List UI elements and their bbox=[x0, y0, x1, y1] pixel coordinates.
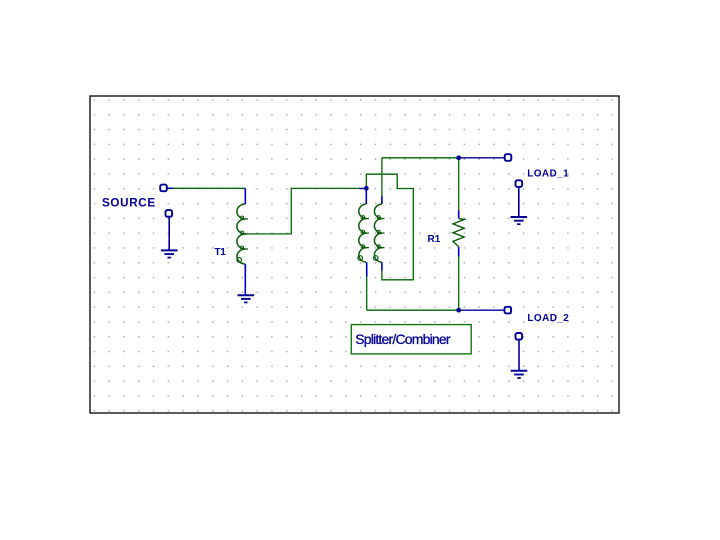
svg-text:T1: T1 bbox=[215, 247, 227, 258]
ground at SOURCE bbox=[161, 250, 178, 257]
wire R1 column upper bbox=[458, 158, 460, 210]
wire SOURCE pin2 to ground bbox=[168, 217, 170, 250]
text box Splitter/Combiner bbox=[351, 325, 471, 354]
svg-text:Splitter/Combiner: Splitter/Combiner bbox=[355, 331, 451, 347]
port SOURCE pin 2 bbox=[166, 210, 173, 217]
port SOURCE pin 1 bbox=[160, 185, 167, 192]
ground at T1 bbox=[238, 295, 255, 302]
wire LOAD_1 pin2 to ground bbox=[518, 187, 520, 217]
port LOAD_2 pin 2 bbox=[516, 333, 523, 340]
wire top rail green bbox=[382, 157, 459, 159]
svg-text:SOURCE: SOURCE bbox=[102, 196, 156, 209]
wire top rail navy to LOAD_1 port bbox=[459, 157, 505, 159]
junction dot T2 input bbox=[364, 186, 369, 191]
ground at LOAD_1 bbox=[511, 217, 528, 224]
wire T2 left winding bottom to bottom rail bbox=[366, 277, 368, 311]
transformer T2 right winding bbox=[374, 196, 385, 271]
wire T1 center tap to T2 junction bbox=[243, 188, 359, 234]
wire R1 column lower bbox=[458, 257, 460, 311]
ground at LOAD_2 bbox=[511, 371, 528, 378]
svg-text:R1: R1 bbox=[428, 234, 441, 245]
resistor R1 bbox=[453, 210, 464, 257]
wire SOURCE to T1 bbox=[167, 187, 245, 189]
port LOAD_1 pin 2 bbox=[516, 180, 523, 187]
port LOAD_2 pin 1 bbox=[505, 307, 512, 314]
wire LOAD_2 pin2 to ground bbox=[518, 340, 520, 371]
wire T2 right winding top to top rail bbox=[381, 158, 383, 196]
svg-text:LOAD_2: LOAD_2 bbox=[527, 313, 569, 324]
svg-text:LOAD_1: LOAD_1 bbox=[527, 168, 569, 179]
wire navy stub into T2 junction bbox=[359, 187, 367, 189]
junction dot top rail bbox=[456, 155, 461, 160]
junction dot bottom rail bbox=[456, 308, 461, 313]
wire bypass loop around T2 right winding bbox=[366, 174, 413, 280]
wire stub at SOURCE port bbox=[167, 187, 173, 189]
wire bottom rail navy to LOAD_2 port bbox=[459, 309, 505, 311]
wire bottom rail green bbox=[367, 309, 459, 311]
transformer T2 left winding bbox=[358, 188, 369, 276]
transformer T1 bbox=[237, 188, 248, 295]
port LOAD_1 pin 1 bbox=[505, 154, 512, 161]
